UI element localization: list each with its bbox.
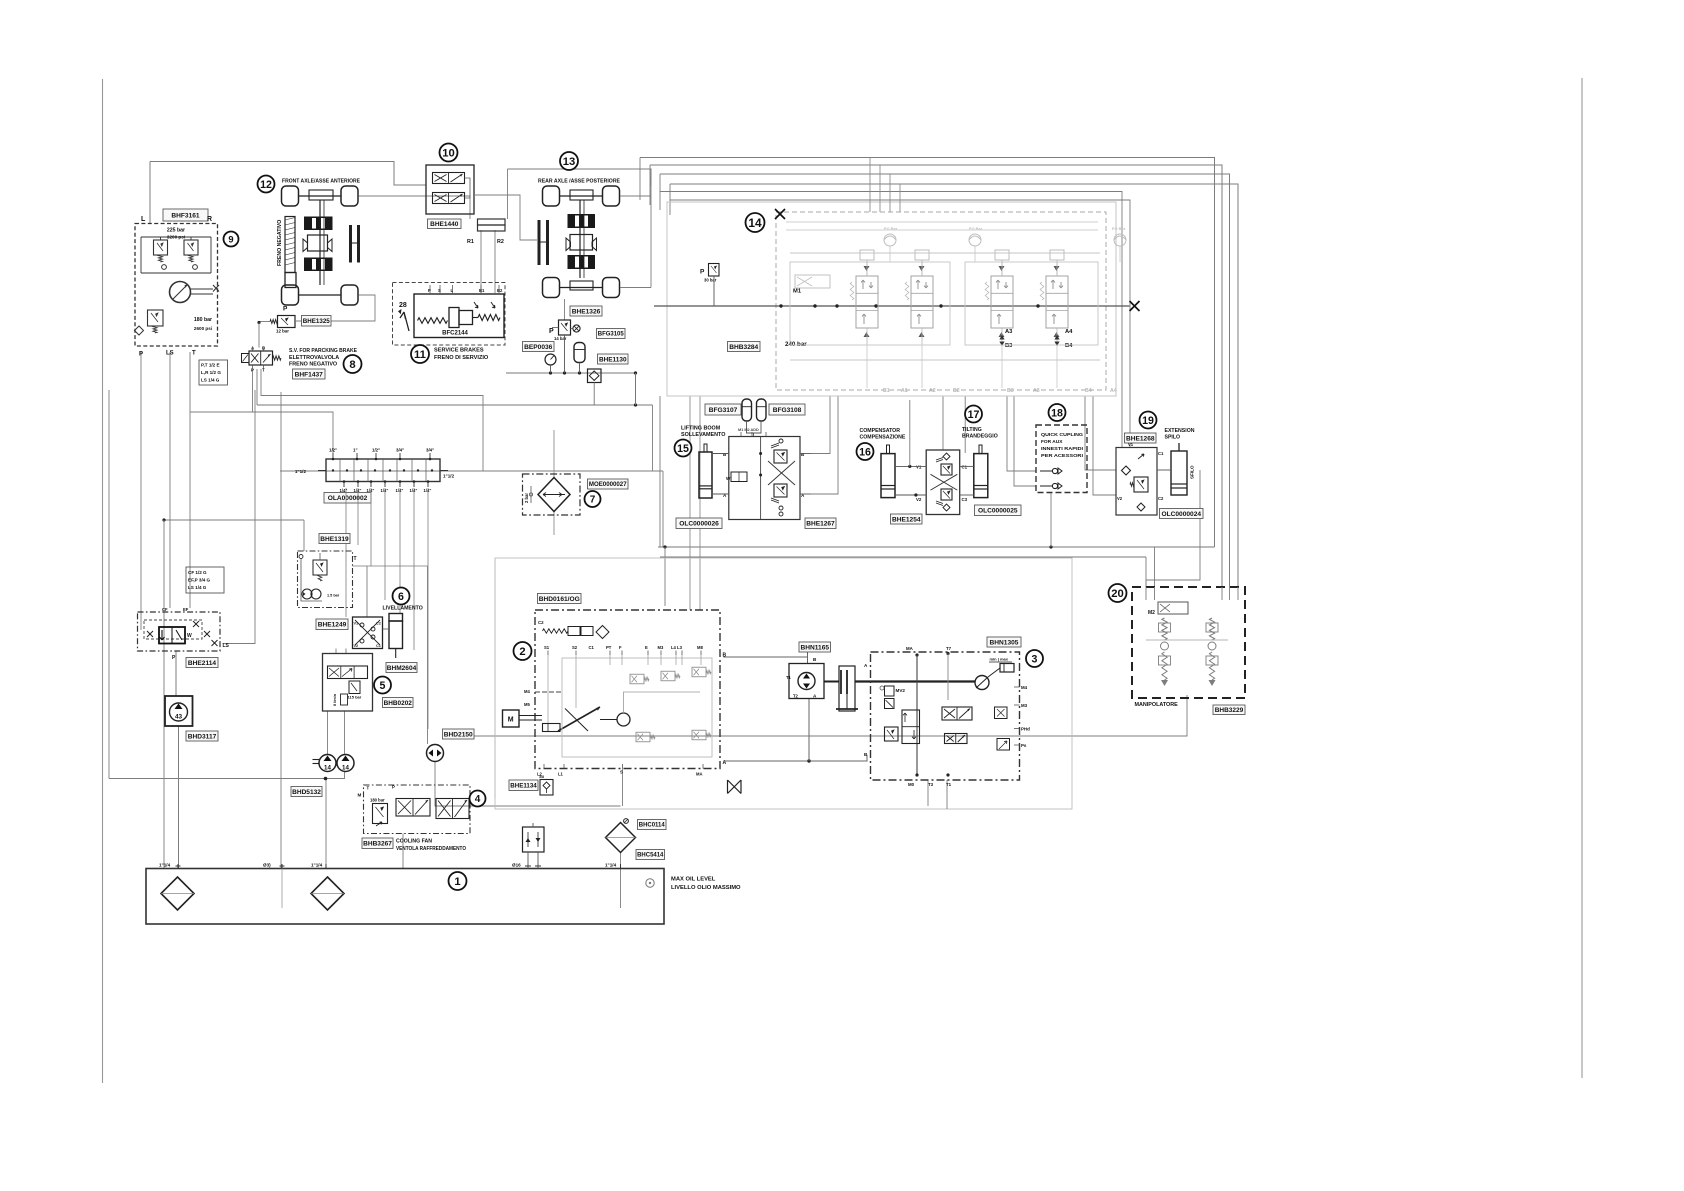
label BHB3267 [362, 838, 393, 849]
filter MOE0000027 box [523, 474, 581, 515]
item2 ghost valve b [661, 671, 675, 681]
wire livellamento riser [366, 566, 368, 617]
svg-text:MOE0000027: MOE0000027 [589, 481, 627, 488]
item2 enclosure [535, 610, 720, 769]
BHE1134 component [540, 780, 553, 796]
svg-text:COMPENSAZIONE: COMPENSAZIONE [860, 435, 906, 441]
svg-text:T: T [367, 786, 370, 791]
pipe manifold top stubs [332, 453, 334, 459]
parking valve spring [273, 356, 282, 360]
svg-text:1/2": 1/2" [329, 448, 337, 453]
svg-text:B2: B2 [497, 288, 503, 293]
front diff [308, 235, 328, 251]
main pump circle [617, 713, 630, 726]
valve bank outer ghost [667, 202, 1116, 396]
wire manip line a [1145, 557, 1147, 587]
pump P14a [319, 755, 336, 772]
quick coupler B [1040, 485, 1052, 487]
wire item6 to item5 a [335, 649, 337, 654]
BHE1319 relief [313, 560, 327, 575]
svg-text:F: F [619, 645, 622, 650]
lift valve top relief [774, 450, 787, 463]
svg-text:1"1/2: 1"1/2 [295, 469, 307, 474]
svg-text:T: T [192, 351, 196, 357]
svg-text:TILTING: TILTING [962, 427, 982, 433]
label BHN1165 [799, 642, 831, 652]
svg-text:B1: B1 [479, 288, 485, 293]
item3 check relief [885, 727, 899, 741]
brake R plate [478, 219, 506, 225]
label BHD3117 [186, 731, 218, 741]
wire pilot gauge stem [713, 276, 715, 306]
item number 8 [344, 355, 362, 373]
wire rear axle brake drop [564, 299, 566, 320]
return spring W [478, 315, 500, 321]
svg-text:LS 1/4 G: LS 1/4 G [188, 585, 207, 590]
pipe manifold mid dots [332, 469, 334, 471]
pipe manifold bottom stubs [343, 482, 345, 488]
wire brake drop x261 [261, 369, 483, 471]
BHE1319 gear pump [302, 589, 312, 599]
pipe manifold body [326, 459, 440, 482]
valve section spool [911, 276, 933, 328]
pump shaft stub [313, 759, 320, 761]
front wheel FL [282, 186, 299, 206]
svg-text:2600 psi: 2600 psi [194, 326, 212, 331]
wire BHD2150 drop x427 [427, 566, 429, 744]
svg-text:12 bar: 12 bar [276, 329, 289, 334]
neg brake actuator [285, 217, 295, 273]
return filter diamond [606, 823, 636, 853]
main pump swash [558, 707, 600, 731]
wire valvebank to tilt C [964, 396, 966, 453]
item9 enclosure [135, 224, 218, 347]
svg-text:LS 1/4 G: LS 1/4 G [201, 378, 220, 383]
wire valvebank to ext b [1093, 396, 1116, 495]
motor M box [503, 710, 520, 727]
item3 pump circle [975, 676, 989, 690]
svg-text:A1: A1 [901, 388, 908, 394]
svg-text:8 l/min: 8 l/min [333, 693, 337, 706]
svg-text:BHC0114: BHC0114 [639, 823, 666, 829]
item3 servo valve a [942, 707, 972, 720]
BHD3117 box [165, 696, 193, 726]
wire manifold drop c [370, 488, 372, 566]
item number 4 [470, 791, 486, 807]
parking valve solenoid [242, 354, 250, 363]
svg-text:SOLLEVAMENTO: SOLLEVAMENTO [681, 432, 725, 438]
tilt relief top [941, 464, 952, 475]
svg-text:8: 8 [349, 359, 355, 371]
tank T1 body [146, 869, 664, 925]
BHE2114 inner dashed [144, 620, 202, 639]
svg-text:180 bar: 180 bar [194, 317, 212, 323]
svg-text:2: 2 [519, 646, 525, 658]
item3 enclosure [871, 652, 1020, 780]
item2 port ticks [547, 651, 549, 656]
item number 2 [514, 642, 532, 660]
svg-text:P: P [549, 328, 554, 335]
item number 6 [393, 588, 410, 605]
svg-text:1/4": 1/4" [424, 488, 432, 493]
ghost M1 valve [795, 275, 830, 288]
svg-text:MA: MA [696, 772, 703, 777]
wire lift B [712, 453, 729, 455]
front axle shaft [319, 200, 321, 285]
rear wheel FL [543, 186, 560, 206]
svg-text:BFG3105: BFG3105 [598, 332, 625, 338]
wire tilt C3 [960, 494, 974, 496]
svg-text:16: 16 [859, 446, 871, 458]
svg-text:V1: V1 [916, 465, 922, 470]
item9 relief RV3 [148, 310, 164, 326]
tilt crossover [931, 474, 958, 490]
wire bhe1326 drop [564, 335, 566, 373]
label BHE1130 [598, 354, 629, 364]
svg-text:BHN1165: BHN1165 [800, 644, 829, 651]
wire BHD3117 to tank [178, 726, 180, 868]
wire item2 A line [724, 755, 868, 761]
svg-text:T7: T7 [946, 646, 952, 651]
svg-text:M1 M2 ADD: M1 M2 ADD [738, 428, 759, 432]
check cross block [353, 617, 383, 649]
svg-text:3/4": 3/4" [396, 448, 404, 453]
label OLC0000025 [975, 505, 1022, 516]
rear wheel RL [543, 278, 560, 298]
wire item2 B to motor [724, 656, 808, 658]
wire rear-axle top run [508, 169, 652, 186]
ghost compensator 3 [1114, 234, 1126, 246]
tilt check diamonds [943, 453, 950, 460]
svg-text:M8: M8 [697, 645, 703, 650]
svg-text:3/8: 3/8 [539, 775, 544, 779]
svg-text:M2: M2 [1148, 610, 1155, 616]
svg-text:1": 1" [353, 448, 358, 453]
gauge symbol x [573, 325, 580, 332]
wire motor drop [807, 647, 809, 664]
svg-text:14: 14 [324, 765, 331, 772]
svg-text:BEP0036: BEP0036 [524, 344, 553, 351]
svg-text:M4: M4 [1021, 685, 1028, 690]
pipe manifold side ports [318, 470, 326, 472]
svg-text:18: 18 [1051, 407, 1063, 419]
svg-text:FRENO NEGATIVO: FRENO NEGATIVO [277, 220, 283, 266]
svg-text:LIFTING BOOM: LIFTING BOOM [681, 426, 721, 432]
svg-text:BHB3267: BHB3267 [363, 841, 392, 848]
pressure gauge [545, 354, 556, 365]
tank interior pipe [281, 869, 283, 909]
accumulator BFG3108 [757, 399, 767, 421]
svg-text:12: 12 [260, 179, 272, 191]
wire drop item2 [664, 547, 666, 606]
svg-text:PER ACESSORI: PER ACESSORI [1041, 453, 1084, 459]
BHE1319 inner wires [301, 559, 322, 602]
pump junction [324, 777, 328, 781]
svg-text:30 bar: 30 bar [704, 278, 717, 283]
svg-text:EXTENSION: EXTENSION [1165, 428, 1195, 434]
wire tilt V1 up [909, 400, 911, 466]
BFC2144 body [414, 294, 504, 338]
BHE1325 valve [278, 316, 296, 328]
label BHE1440 [428, 219, 462, 229]
wire suction left x109 [108, 390, 110, 779]
svg-text:T1: T1 [786, 675, 792, 680]
label OLC0000026 [676, 518, 722, 529]
svg-text:M: M [508, 717, 514, 724]
MV2 valve [885, 699, 895, 709]
wire manifold drop e [399, 488, 401, 613]
wire brake accumulator bus [506, 372, 637, 374]
master cyl spring [418, 318, 448, 324]
manip pilot valve [1158, 602, 1188, 614]
rear axle beam bottom [560, 287, 603, 289]
item number 18 [1049, 404, 1066, 421]
item number 5 [374, 677, 391, 694]
wire tilt feed run [660, 192, 1122, 448]
svg-text:V1: V1 [1128, 442, 1134, 447]
item9 bus top [141, 236, 211, 238]
parking valve BHF1437 [249, 351, 273, 365]
svg-text:M0: M0 [908, 782, 915, 787]
valve bank ghost drop c1 [889, 246, 891, 262]
label BHE1326 [570, 306, 602, 316]
svg-text:min | max: min | max [990, 657, 1009, 662]
label BHM2604 [386, 663, 417, 673]
svg-text:LIVELLAMENTO: LIVELLAMENTO [383, 606, 423, 612]
item3 right port ticks [1014, 686, 1020, 688]
fan valve enclosure [364, 785, 471, 834]
lift crossover lines [768, 461, 795, 485]
svg-text:15: 15 [677, 443, 689, 455]
svg-text:20: 20 [1111, 588, 1124, 600]
wire S port to return [622, 769, 624, 807]
svg-text:C1: C1 [1158, 451, 1164, 456]
wire tilt V2 [895, 494, 926, 496]
wire valvebank to quick a [1007, 396, 1036, 471]
svg-text:1"1/2: 1"1/2 [443, 474, 455, 479]
wire motor A drop [808, 699, 810, 762]
svg-text:BHE1249: BHE1249 [318, 622, 347, 629]
svg-text:1: 1 [454, 876, 460, 888]
front driveshaft disc [349, 225, 352, 263]
suction filter F2 [311, 877, 344, 910]
lift top port ticks [740, 432, 742, 437]
ext check diamond [1122, 466, 1131, 475]
X mark outlet [1130, 301, 1140, 311]
ghost gallery top [790, 252, 1100, 254]
wire top-left boundary [150, 162, 426, 186]
rear brake pack lower [568, 255, 596, 269]
ghost gallery band b [786, 229, 1098, 231]
item3 right valve b [997, 739, 1010, 751]
filter bypass stub [530, 486, 532, 503]
label BHN1305 [987, 637, 1021, 647]
svg-text:BHE1130: BHE1130 [599, 356, 627, 363]
svg-text:REAR AXLE /ASSE POSTERIORE: REAR AXLE /ASSE POSTERIORE [538, 179, 620, 185]
svg-text:INNESTI RAPIDI: INNESTI RAPIDI [1041, 446, 1084, 452]
BHE1319 inlet circle [299, 555, 303, 559]
manip valve blocks [1159, 623, 1171, 632]
wire filter feed [553, 430, 555, 478]
item2 bottom ticks [543, 764, 545, 769]
svg-text:A2: A2 [929, 388, 936, 394]
item2 ghost valve c [692, 667, 706, 677]
brake light sw 1 [474, 302, 478, 308]
pump P14b [337, 755, 354, 772]
item3 servo piston [988, 668, 1000, 677]
svg-text:19: 19 [1142, 415, 1154, 427]
item number 12 [258, 176, 275, 193]
A3B3 check arrows [999, 335, 1004, 340]
svg-text:M4: M4 [524, 689, 530, 694]
wire manip pilot supply [470, 695, 1187, 736]
svg-text:S1: S1 [544, 645, 550, 650]
item2 port drops [547, 655, 549, 665]
wire bank T drop [659, 396, 661, 547]
label BHE2114 [186, 658, 218, 668]
svg-text:BFG3108: BFG3108 [773, 407, 802, 414]
item2 ghost valve e [692, 730, 706, 740]
svg-text:A3: A3 [1033, 388, 1040, 394]
front brake pack lower [304, 258, 333, 272]
wire item9 LS down [169, 352, 171, 608]
svg-text:M3: M3 [1021, 703, 1028, 708]
page border right [1581, 78, 1583, 1078]
svg-text:BHE1325: BHE1325 [303, 318, 331, 325]
BHE1440 inner wire [465, 178, 471, 198]
servo cylinder [543, 724, 561, 732]
wire R2 column [494, 230, 496, 293]
svg-text:BHE1319: BHE1319 [320, 536, 349, 543]
svg-text:43: 43 [175, 714, 183, 721]
svg-text:L: L [141, 216, 146, 223]
quick coupling box [1036, 425, 1087, 493]
item2 inner rect [562, 658, 712, 757]
label BHE1325 [302, 316, 332, 327]
filter bypass glyph [624, 819, 629, 824]
BHN1165 motor box [789, 664, 824, 699]
svg-text:Ps: Ps [1021, 743, 1027, 748]
filter diamond [538, 478, 570, 512]
main pressure line [654, 305, 1130, 307]
item9 bus mid [141, 272, 211, 274]
svg-text:BHE1440: BHE1440 [430, 221, 459, 228]
wire enclosure items 2-3 [494, 558, 496, 560]
wire tilt V1 [895, 465, 926, 467]
BHE1440 block [426, 165, 474, 214]
svg-text:FRENO DI SERVIZIO: FRENO DI SERVIZIO [434, 355, 489, 361]
svg-text:BHB0202: BHB0202 [384, 700, 413, 707]
wire bus tie [635, 373, 637, 405]
item number 20 [1109, 584, 1127, 602]
svg-text:V1: V1 [354, 622, 359, 626]
wire item10 to rear axle [474, 195, 537, 240]
svg-text:3200 psi: 3200 psi [167, 235, 185, 240]
wire item9 P down [140, 352, 142, 630]
lift valve block [729, 437, 800, 520]
wire fan block to tank [402, 834, 404, 869]
svg-text:C1: C1 [962, 465, 968, 470]
svg-text:P: P [392, 785, 395, 790]
wire front axle to R1 [359, 196, 471, 219]
svg-text:C2: C2 [376, 622, 381, 626]
wire tank drop x281 [280, 392, 282, 868]
svg-text:BHD2150: BHD2150 [444, 731, 473, 738]
svg-text:1.5 bar: 1.5 bar [327, 594, 340, 598]
fan motor BHD2150 [427, 745, 444, 762]
item5 body [323, 654, 373, 712]
svg-text:10: 10 [442, 148, 455, 160]
manipolatore box [1132, 587, 1245, 698]
item number 15 [675, 440, 692, 457]
front axle kingpin top [309, 190, 333, 200]
label OLA0000002 [324, 493, 371, 504]
lift cylinder [699, 452, 712, 498]
svg-text:9: 9 [228, 234, 233, 244]
wire valvebank to lift A [811, 396, 838, 494]
wire bundle stub2 [649, 165, 651, 205]
item number 17 [965, 406, 982, 423]
svg-text:R2: R2 [497, 239, 504, 245]
lift valve bottom relief [774, 484, 787, 497]
wire bundle run3 [660, 174, 1230, 587]
wire LS to priority valve [223, 390, 256, 644]
check ball c1 [162, 265, 167, 270]
svg-text:B2: B2 [953, 388, 960, 394]
master cyl pistons [449, 308, 459, 328]
svg-text:A4: A4 [1065, 329, 1073, 335]
svg-text:L4 L3: L4 L3 [671, 645, 683, 650]
label OLC0000024 [1160, 509, 1204, 519]
svg-text:B3: B3 [1007, 388, 1014, 394]
ext relief [1134, 477, 1148, 492]
item number 16 [857, 443, 874, 460]
svg-text:14: 14 [748, 216, 762, 230]
wire BHE2114 P to BHD3117 [175, 651, 177, 696]
svg-text:BHF1437: BHF1437 [295, 371, 324, 378]
svg-text:S: S [620, 770, 623, 775]
wire bundle run4 [670, 184, 1238, 587]
svg-text:1/2": 1/2" [372, 448, 380, 453]
wire item5 to pumps b [344, 711, 346, 754]
valve section spool [856, 276, 878, 328]
BHE1319 enclosure [298, 551, 353, 608]
svg-text:P: P [700, 269, 705, 276]
manip joystick left [1162, 618, 1167, 640]
svg-text:6: 6 [398, 591, 404, 603]
svg-text:7: 7 [590, 495, 596, 506]
valve bank ghost drop c3 [1119, 246, 1121, 262]
legend CF sizes [186, 567, 224, 593]
svg-text:VENTOLA RAFFREDDAMENTO: VENTOLA RAFFREDDAMENTO [396, 846, 466, 852]
wire item9 T down [189, 352, 191, 608]
valve bank dashed enclosure [776, 212, 1106, 390]
svg-text:BHD5132: BHD5132 [292, 789, 321, 796]
label BHD0161/OG [538, 594, 582, 604]
rear kingpin bottom [570, 281, 593, 290]
svg-text:T3: T3 [928, 782, 934, 787]
item number 10 [440, 144, 458, 162]
svg-text:A3: A3 [1005, 329, 1013, 335]
ext cylinder [1171, 451, 1187, 495]
label BHE1249 [316, 619, 348, 630]
item number 9 [224, 232, 239, 247]
wire rear axle right loop [620, 195, 651, 197]
svg-text:1/4": 1/4" [410, 488, 418, 493]
wire manifold drop d [384, 488, 386, 600]
BHE1440 valve lower [433, 193, 465, 204]
svg-text:B4: B4 [1085, 388, 1092, 394]
